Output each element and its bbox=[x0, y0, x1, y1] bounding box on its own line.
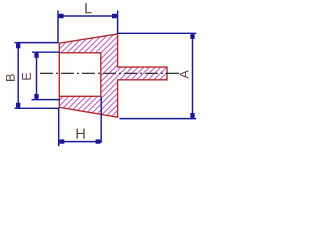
dim A extension top bbox=[118, 32, 197, 34]
dim H extension left bbox=[58, 109, 60, 147]
cavity outline bbox=[59, 53, 101, 97]
dim E extension bottom bbox=[32, 99, 60, 101]
dim E arrow top bbox=[34, 52, 38, 58]
dim A arrow bottom bbox=[190, 113, 194, 119]
dim A line bbox=[192, 33, 194, 118]
dim E line bbox=[36, 52, 38, 99]
dim B line bbox=[17, 43, 19, 109]
dim A extension bottom bbox=[120, 118, 197, 120]
dim H extension right bbox=[100, 97, 102, 143]
label B bbox=[6, 74, 15, 81]
dim B extension bottom bbox=[15, 107, 60, 109]
dim A arrow top bbox=[190, 33, 194, 39]
dim E extension top bbox=[32, 51, 60, 53]
dim H line bbox=[59, 141, 101, 143]
dim E arrow bottom bbox=[34, 94, 38, 100]
section hatching bbox=[59, 34, 167, 117]
part outline bbox=[59, 34, 167, 117]
label L bbox=[85, 3, 91, 13]
label H bbox=[77, 129, 85, 139]
dim B arrow top bbox=[16, 43, 20, 49]
label E bbox=[22, 73, 31, 80]
dim H arrow left bbox=[59, 139, 65, 143]
dim L arrow right bbox=[112, 14, 118, 18]
dim B arrow bottom bbox=[16, 103, 20, 109]
dim L extension left bbox=[57, 11, 59, 44]
label A bbox=[180, 70, 189, 78]
centerline bbox=[40, 72, 180, 74]
dim L extension right bbox=[117, 11, 119, 34]
dim B extension top bbox=[15, 42, 59, 44]
dim L arrow left bbox=[58, 14, 64, 18]
dim H arrow right bbox=[96, 139, 102, 143]
dim L line bbox=[58, 15, 118, 17]
